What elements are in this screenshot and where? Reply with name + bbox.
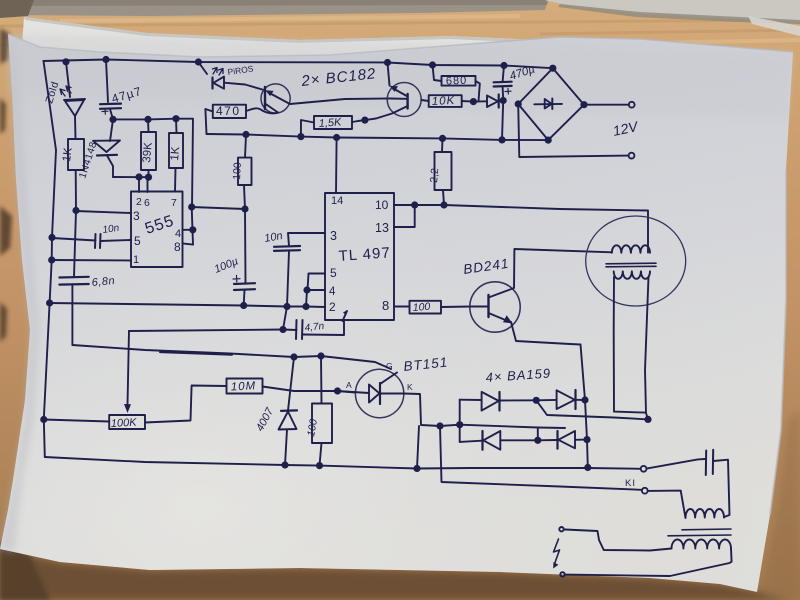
junction node (648,419.4) (644, 416, 651, 423)
capacitor C7 4,7n (296, 320, 303, 339)
wire TL497 pin10 to transformer primary (394, 205, 648, 253)
junction node (106,59.5) (102, 56, 109, 63)
wire to relay contact K1 lower (440, 426, 641, 490)
spark gap symbol (554, 539, 560, 564)
junction node (585,400) (581, 396, 588, 403)
svg-text:4,7n: 4,7n (304, 321, 325, 334)
junction node (192.8,229.8) (189, 226, 196, 233)
svg-text:680: 680 (446, 75, 468, 88)
transistor Q1 BC182 (261, 84, 290, 113)
junction node (364.9,120.1) (361, 117, 368, 124)
wire row2 stub up (537, 428, 539, 441)
capacitor C6 10n TL497 (274, 246, 300, 251)
wire bridge output to secondary (536, 400, 648, 419)
second paper sheet (20, 17, 568, 75)
wire 555 pin4/8 node to cap (192, 207, 245, 209)
diode D4 (473, 100, 487, 102)
svg-text:A: A (346, 380, 352, 390)
junction node (176,118.7) (172, 115, 179, 122)
wire secondary right lead (645, 277, 649, 419)
thyristor Q3 BT151 (355, 369, 403, 417)
transistor Q4 BD241 (470, 282, 520, 332)
junction node (387.5,62.5) (384, 59, 391, 66)
wire bridge + terminal (584, 104, 629, 106)
junction node (306,306.5) (302, 303, 309, 310)
junction node (191.7,207) (188, 203, 195, 210)
svg-text:470: 470 (216, 104, 241, 118)
wire 4,7n net to trimmer wiper (129, 330, 283, 332)
junction node (442.5,138.4) (439, 135, 446, 142)
svg-text:5: 5 (330, 266, 337, 280)
junction node (285,465) (281, 461, 288, 468)
junction node (337.5,391) (334, 387, 341, 394)
wire pin2 net left rail to TL497 (50, 303, 325, 307)
svg-text:14: 14 (331, 195, 343, 207)
svg-text:1,5K: 1,5K (318, 116, 342, 130)
svg-text:G: G (386, 361, 393, 371)
capacitor C8 spark (647, 459, 706, 469)
wire TL497 pin8 (394, 306, 410, 308)
gray object top edge (0, 0, 548, 16)
capacitor C4 470u (494, 82, 512, 87)
LED D1 Zold (66, 62, 70, 97)
ignition coil T2 (686, 509, 725, 518)
svg-text:100: 100 (231, 162, 244, 180)
wire TL497 pin5-pin4 bracket (308, 274, 326, 291)
junction node (321,356) (317, 352, 324, 359)
wire Q2 emitter (365, 106, 408, 120)
resistor R3 1K second (169, 133, 183, 168)
svg-text:39K: 39K (141, 142, 155, 164)
junction node (587.8,467.5) (584, 464, 591, 471)
svg-text:1K: 1K (61, 147, 75, 163)
capacitor C1 47u7 (106, 60, 108, 103)
wire Q1 emitter to 470 (246, 108, 278, 113)
svg-text:KI: KI (625, 478, 636, 489)
junction node (307,290) (303, 286, 310, 293)
junction node (52,237.5) (48, 234, 55, 241)
wire top supply rail (44, 60, 553, 69)
junction node (518.2,104) (515, 100, 522, 107)
junction node (287,306.5) (283, 303, 290, 310)
diode D9 4007 (288, 357, 294, 411)
resistor R1 1K (68, 139, 84, 170)
resistor R9 100 (410, 301, 442, 314)
junction node (148.5,177.2) (145, 174, 152, 181)
terminal 12V plus (629, 102, 635, 108)
resistor R4 470 (213, 105, 246, 118)
svg-text:2: 2 (136, 196, 142, 208)
junction node (245,209) (241, 205, 248, 212)
wire TL497 pin14 supply (335, 138, 338, 194)
wire diode cathode to 555 pins 2,6 (113, 176, 149, 178)
svg-text:6: 6 (144, 197, 150, 209)
wire 6,8n to thyristor gate (72, 345, 391, 369)
resistor R13 100 vertical (312, 404, 332, 444)
shadow under paper (0, 549, 790, 600)
junction node (66,61.8) (62, 58, 69, 65)
transformer T1 (586, 216, 686, 306)
pin1 arrow (343, 311, 348, 321)
junction node (300.9,136.6) (297, 133, 304, 140)
terminal spark lower (560, 572, 564, 576)
wire ignition secondary left to spark top (565, 530, 672, 551)
capacitor C3 6,8n (59, 277, 88, 285)
wood knots left edge (0, 28, 12, 342)
bridge rectifier BR1 (518, 68, 584, 140)
junction node (49.6,303) (46, 299, 53, 306)
IC U1 555 (131, 192, 183, 268)
junction node (319.5,465.6) (316, 462, 323, 469)
junction node (459.7,424.7) (456, 421, 463, 428)
wire mid power rail (207, 134, 549, 140)
IC U2 TL497 (325, 193, 394, 320)
wire bottom rail (45, 457, 641, 469)
diode D2 1N4148 (110, 119, 113, 141)
wire Q2 collector to rail (388, 63, 390, 86)
junction node (432.5,65) (429, 61, 436, 68)
wire secondary left lead (614, 277, 646, 413)
terminal spark upper (559, 527, 563, 531)
junction node (444,205) (440, 201, 447, 208)
svg-text:K: K (407, 382, 413, 392)
svg-text:2: 2 (329, 300, 336, 314)
svg-text:100K: 100K (111, 417, 138, 430)
junction node (113,119.4) (109, 116, 116, 123)
wire ignition secondary right to bottom (566, 549, 732, 577)
svg-text:TL 497: TL 497 (338, 244, 391, 265)
junction node (43.8,419.5) (40, 416, 47, 423)
junction node (417,468.5) (413, 465, 420, 472)
terminal 12V minus (629, 153, 635, 159)
junction node (587,439.6) (583, 436, 590, 443)
LED D3 PIROS (198, 62, 207, 74)
diodes D5,D6,D7,D8 4x BA159 (459, 400, 461, 442)
wire 47u/diode/39K/1K net (113, 119, 193, 207)
capacitor C5 100u (244, 209, 247, 283)
wire Q1 collector to Q2 base (290, 99, 406, 105)
wire K1 lower to ignition primary (648, 491, 686, 518)
junction node (584,104.7) (580, 101, 587, 108)
svg-text:4: 4 (329, 286, 336, 298)
resistor R10 100 top (238, 158, 252, 185)
junction node (502,139.9) (498, 136, 505, 143)
wire BD241 emitter down (511, 322, 588, 468)
junction node (504,65.5) (500, 62, 507, 69)
resistor R6 10K (429, 95, 462, 107)
svg-text:3: 3 (330, 229, 337, 243)
junction node (148,119.4) (144, 116, 151, 123)
resistor R2 39K (141, 132, 156, 170)
wire thyristor cathode (380, 394, 565, 429)
junction node (548.2,140.1) (545, 137, 552, 144)
wire 555 pin3 (76, 211, 131, 213)
junction node (537.8,440.3) (534, 437, 541, 444)
resistor R5 1,5K (314, 116, 352, 129)
resistor R12 10M (227, 379, 263, 394)
junction node (76,210.5) (72, 207, 79, 214)
svg-text:3: 3 (133, 209, 140, 223)
capacitor C2 10n (52, 238, 96, 241)
junction node (536.25,400.3) (533, 397, 540, 404)
junction node (246,134.5) (242, 131, 249, 138)
gray object top right (545, 0, 800, 22)
junction node (243.7,305.5) (240, 302, 247, 309)
svg-text:5: 5 (134, 234, 141, 248)
wire TL497 pin13 (394, 205, 415, 227)
svg-text:8: 8 (174, 240, 181, 254)
junction node (552.8,68.2) (549, 65, 556, 72)
svg-text:10K: 10K (432, 95, 456, 108)
junction node (283,329.5) (279, 326, 286, 333)
svg-text:13: 13 (375, 221, 389, 235)
trimmer R11 100K (109, 415, 145, 429)
junction node (503.2,100.5) (500, 97, 507, 104)
svg-text:100: 100 (412, 301, 430, 314)
junction node (336.6,137.5) (333, 134, 340, 141)
junction node (414.7,205) (411, 201, 418, 208)
wire 555 pin1 (52, 259, 131, 262)
junction node (473.4,101.6) (470, 98, 477, 105)
wire 555 pins4,8 bracket (183, 229, 193, 231)
svg-text:10: 10 (375, 198, 389, 212)
svg-text:1: 1 (133, 254, 139, 266)
svg-text:7: 7 (171, 197, 177, 209)
terminal K1 lower (642, 488, 648, 494)
svg-text:6,8n: 6,8n (91, 275, 115, 289)
svg-text:8: 8 (382, 298, 389, 313)
junction node (139,177) (135, 173, 142, 180)
junction node (440,426) (436, 422, 443, 429)
svg-text:1K: 1K (169, 146, 182, 161)
resistor R7 680 (442, 76, 476, 86)
svg-text:4: 4 (175, 228, 181, 240)
svg-text:2,2: 2,2 (428, 168, 441, 184)
junction node (294,357) (290, 353, 297, 360)
junction node (198.4,62) (195, 58, 202, 65)
resistor R8 2,2 (435, 152, 452, 190)
transistor Q2 BC182 (387, 83, 421, 117)
terminal K1 upper (641, 466, 647, 472)
wire left rail (44, 61, 57, 457)
wire bridge - terminal (518, 104, 628, 157)
junction node (51.7,260) (48, 256, 55, 263)
svg-text:10M: 10M (231, 380, 257, 393)
